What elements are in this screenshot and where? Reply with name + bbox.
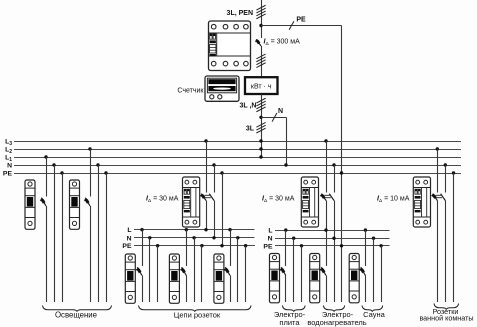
bus PE [14,173,461,175]
wire N branch horizontal [261,117,286,119]
label PE sockets [122,243,132,250]
label L3 [5,139,12,148]
brace socket circuits group [139,306,252,312]
label 3L ,N [240,103,257,110]
svg-text:N: N [127,235,132,242]
wire L3 feed to sockets RCD [204,139,207,229]
wire PE drop sauna [379,244,382,302]
wire PE feed sockets group [220,171,223,245]
sub-bus PE stove group [275,245,390,247]
node main to L3 [259,139,262,142]
wire PE drop circuit 1 [60,171,63,302]
node PE downcomer to PE bus [340,171,343,174]
label PE [296,17,306,24]
wire L1 drop circuit 1 [44,155,47,302]
node main to L1 [259,155,262,158]
main incoming RCD 300mA device box (4-pole) [209,21,251,71]
bus L2 [14,149,461,151]
svg-text:3L, PEN: 3L, PEN [227,10,253,17]
wire riser below main switch [261,46,263,77]
label PE [3,171,13,178]
node L feed stove sub-bus [324,228,327,231]
wire L drop socket circuit 3 [228,228,231,302]
wire N drop circuit 2 [96,163,99,302]
wire N drop socket circuit 3 [236,236,239,302]
wire N drop socket circuit 1 [148,236,151,302]
svg-text:N: N [278,108,283,115]
RCD 30mA sockets device box [183,177,200,227]
node N feed to sub-bus [212,236,215,239]
wire PE drop socket circuit 1 [156,244,159,302]
wire N drop stove [292,237,295,303]
label Освещение [55,311,97,320]
label L2 [5,147,12,156]
wire N branch down to N bus [286,117,288,165]
label N [278,108,283,115]
wire L drop sauna [364,228,367,302]
wire L drop socket circuit 2 [185,228,188,302]
label Цепи розеток [174,311,221,320]
node N split [259,116,262,119]
bus L1 [14,157,461,159]
wire incoming 3L,PEN riser [261,0,263,38]
svg-text:3L ,N: 3L ,N [240,103,257,110]
sub-bus N stove group [275,238,390,240]
svg-text:Сауна: Сауна [363,310,385,319]
svg-text:PE: PE [122,243,132,250]
svg-text:водонагреватель: водонагреватель [307,318,366,327]
breaker contact socket circuit 3 [224,267,230,275]
wire riser below kWh meter [261,94,263,157]
label I=300mA [264,39,301,48]
wire PE drop circuit 2 [104,171,107,302]
brace bathroom sockets [434,304,459,310]
wire N feed to sockets RCD [212,163,215,238]
breaker socket circuit 1 device box [125,254,135,303]
label L stove group [268,228,272,235]
conductor-count hatch 3L,PEN [256,5,265,19]
wire L2 feed bathroom RCD [436,147,439,302]
wire L3 feed to stove-group RCD [324,139,327,302]
conductor-count hatch 3L [256,122,265,133]
RCD 10mA bathroom device box [413,177,430,227]
breaker water-heater device box [310,254,320,303]
node N feed stove sub-bus [332,237,335,240]
sub-bus PE sockets [134,245,255,247]
wire N feed bathroom [444,163,447,302]
conductor-count hatch 3L,N [256,98,265,112]
wire PE drop socket circuit 3 [244,244,247,302]
label N [7,163,12,170]
node L feed to sub-bus [204,228,207,231]
label Сауна [363,310,385,319]
label Электроводонагреватель [307,310,366,327]
2-pole contact RCD 10mA bathroom [432,194,446,201]
svg-text:PE: PE [296,17,306,24]
wire N feed stove group [332,163,335,302]
RCD 30mA stove group device box [301,177,318,227]
breaker contact stove [280,267,286,275]
svg-text:ванной комнаты: ванной комнаты [419,314,473,323]
breaker contact water-heater [320,267,326,275]
breaker socket circuit 3 device box [214,254,224,303]
svg-text:L: L [127,227,131,234]
svg-text:3L: 3L [246,125,255,132]
label Электроплита [274,310,306,327]
kWh meter symbol box [245,77,278,94]
label I=30mA sockets [146,196,179,205]
breaker contact circuit 2 [84,198,90,206]
main switch contact of RCD 300mA [255,39,261,46]
breaker stove device box [270,254,280,303]
svg-text:PE: PE [263,243,273,250]
label PE stove group [263,243,273,250]
conductor slash PE branch [289,21,294,30]
conductor-count hatch below switch [256,54,265,68]
label ванной комнаты [419,314,473,323]
wire L drop stove [284,228,287,302]
label Розетки [433,307,459,316]
svg-text:N: N [268,236,273,243]
svg-text:Счетчик: Счетчик [177,87,204,94]
2-pole contact RCD 30mA sockets [200,194,214,201]
breaker QF1 lighting device box [25,180,35,229]
energy meter device box [205,76,239,101]
brace lighting group [43,306,112,312]
brace sauna [362,306,383,312]
label L1 [5,155,12,164]
label Счетчик [177,87,204,94]
wire PE branch horizontal [261,25,342,27]
wire N drop circuit 1 [52,163,55,302]
svg-text:плита: плита [279,318,300,327]
label I=30mA stove group [262,196,295,205]
breaker sauna device box [349,254,359,303]
wire PE drop socket circuit 2 [200,244,203,302]
bus L3 [14,141,461,143]
breaker socket circuit 2 device box [169,254,179,303]
svg-text:кВт · ч: кВт · ч [251,83,272,90]
wire PE drop bathroom [452,171,455,302]
conductor slash N branch [272,113,277,122]
svg-text:L: L [268,228,272,235]
label I=10mA bathroom [377,196,410,205]
node PE feed to sub-bus [220,244,223,247]
label 3L [246,125,255,132]
node main to L2 [259,147,262,150]
breaker QF2 lighting device box [70,180,80,229]
wire PE drop stove [300,244,303,302]
label 3L, PEN [227,10,253,17]
brace water-heater [323,306,344,312]
breaker contact sauna [360,267,366,275]
node PE feed stove sub-bus [340,244,343,247]
svg-text:Освещение: Освещение [55,311,97,320]
2-pole contact RCD 30mA stove group [320,194,334,201]
bus N [14,165,461,167]
label L sockets [127,227,131,234]
breaker contact circuit 1 [40,198,46,206]
wire L2 drop circuit 2 [88,147,91,302]
node N branch to bus [284,163,287,166]
sub-bus N sockets [134,237,255,239]
wire L drop socket circuit 1 [140,228,143,302]
svg-text:N: N [7,163,12,170]
node PEN split [259,24,262,27]
brace stove [282,306,305,312]
svg-text:Цепи розеток: Цепи розеток [174,311,221,320]
sub-bus L stove group [275,230,390,232]
sub-bus L sockets [134,229,255,231]
label N sockets [127,235,132,242]
svg-text:PE: PE [3,171,13,178]
wire N drop socket circuit 2 [192,236,195,302]
wire PE downcomer right side [341,26,343,303]
breaker contact socket circuit 1 [136,267,142,275]
breaker contact socket circuit 2 [181,267,187,275]
wire N drop sauna [372,237,375,303]
label N stove group [268,236,273,243]
